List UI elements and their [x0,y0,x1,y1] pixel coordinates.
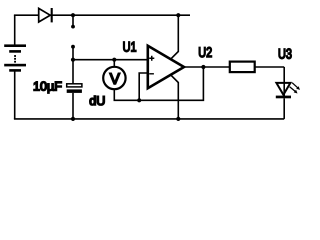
wire capacitor bottom lead [72,93,74,119]
svg-text:10µF: 10µF [33,80,62,94]
wire LED cathode to bottom rail [283,98,285,119]
svg-text:U2: U2 [198,44,212,60]
svg-text:U1: U1 [123,39,137,55]
junction dot noninverting wire at capacitor branch [71,58,75,62]
wire battery minus to bottom rail [14,71,16,119]
wire terminal to capacitor top plate [72,47,74,84]
junction dot output node U2 [201,65,205,69]
wire voltmeter top stub [113,60,115,70]
wire noninverting input [73,59,148,61]
wire op-amp output to resistor [184,66,230,68]
wire resistor to LED corner [255,66,285,68]
svg-text:dU: dU [89,94,105,108]
wire terminal stub from top rail [72,15,74,26]
wire op-amp V+ pin [171,15,179,59]
junction dot capacitor at bottom rail [71,117,75,121]
diode D1 [39,8,52,22]
wire voltmeter bottom and feedback to output node [114,66,203,100]
wire top rail [14,14,190,16]
svg-text:U3: U3 [278,46,292,62]
junction dot op-amp V- at bottom rail [176,117,180,121]
voltmeter dU [103,67,125,89]
op-amp U1 [148,46,184,88]
LED U3 [276,83,300,99]
battery B1 [4,44,26,71]
capacitor C1 [67,84,82,93]
junction dot voltmeter top [112,58,116,62]
junction dot top rail at terminal stub [71,13,75,17]
wire LED anode lead [283,67,285,97]
terminal dot upper [71,25,75,29]
junction dot top rail at op-amp V+ [176,13,180,17]
wire bottom rail [14,118,284,120]
wire op-amp V- pin [171,75,179,119]
junction dot feedback at inverting branch [137,98,141,102]
wire battery plus to top-left corner [14,15,16,45]
wire inverting input [139,73,148,100]
resistor R1 [230,62,255,73]
terminal dot lower [71,45,75,49]
svg-text:V: V [110,71,121,88]
